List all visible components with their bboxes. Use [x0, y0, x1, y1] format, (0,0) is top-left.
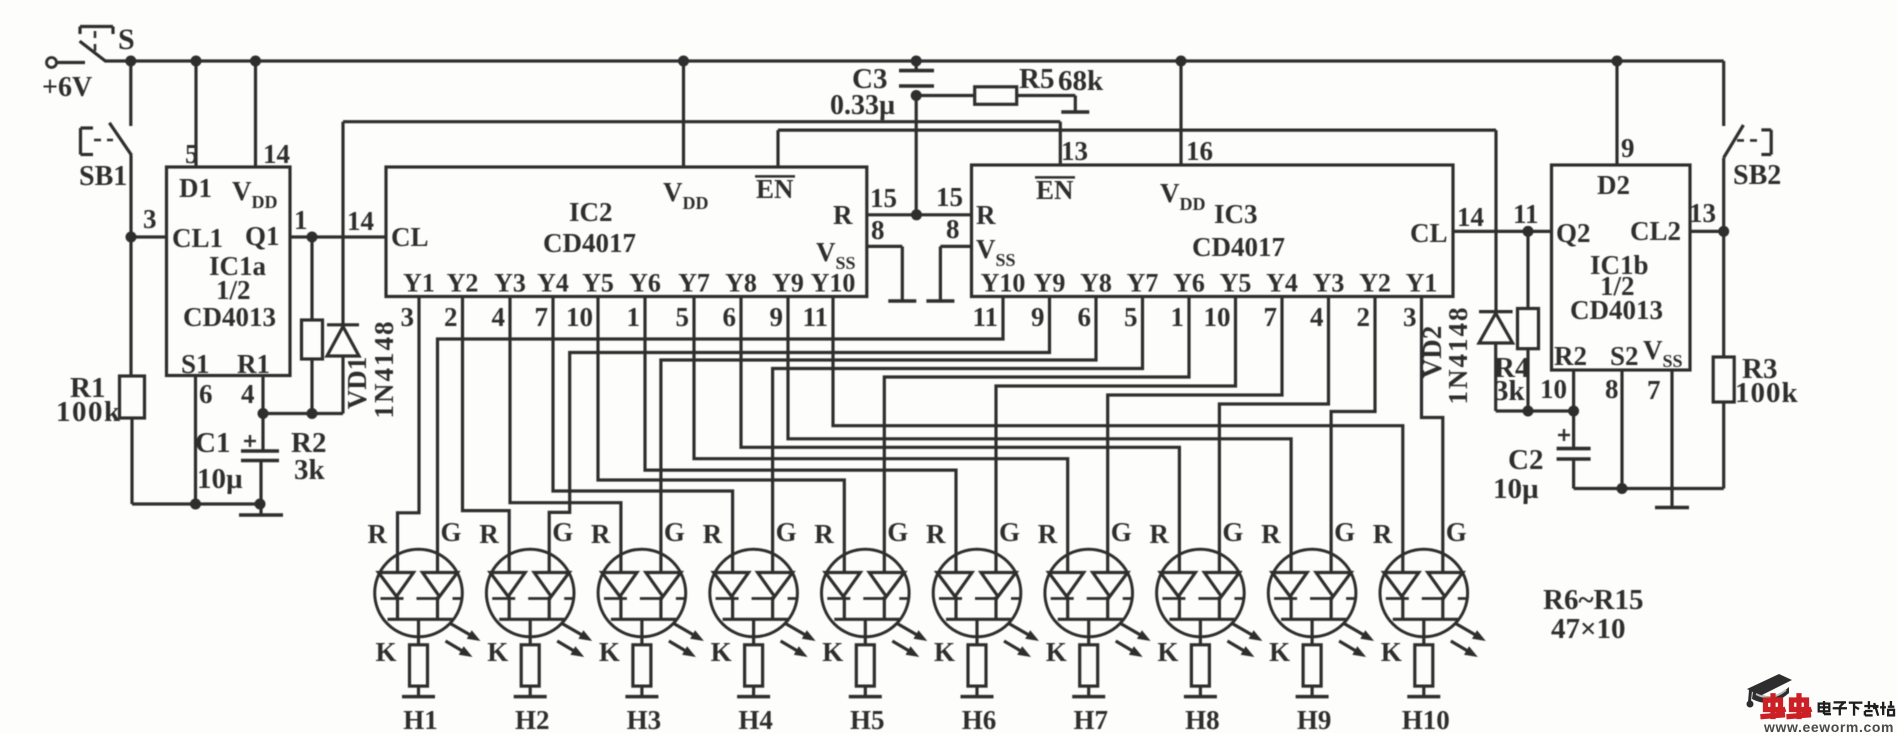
svg-text:R: R: [703, 519, 723, 549]
svg-text:Y7: Y7: [678, 269, 710, 298]
svg-text:VD1: VD1: [342, 357, 372, 410]
svg-text:3: 3: [401, 302, 415, 332]
svg-text:SB1: SB1: [79, 161, 127, 192]
svg-text:Y6: Y6: [1173, 269, 1205, 298]
svg-text:4: 4: [492, 302, 506, 332]
svg-text:13: 13: [1689, 198, 1716, 228]
svg-text:1: 1: [1171, 302, 1185, 332]
svg-text:Y1: Y1: [403, 269, 435, 298]
svg-text:R: R: [591, 519, 611, 549]
svg-text:CD4013: CD4013: [1570, 295, 1663, 325]
svg-text:1: 1: [627, 302, 641, 332]
svg-text:9: 9: [1621, 133, 1635, 163]
svg-text:2: 2: [444, 302, 458, 332]
svg-text:8: 8: [946, 214, 960, 244]
svg-text:Y10: Y10: [981, 269, 1026, 298]
svg-text:R: R: [976, 200, 996, 230]
svg-text:H2: H2: [515, 705, 550, 733]
svg-text:15: 15: [936, 182, 963, 212]
svg-text:CL2: CL2: [1630, 216, 1681, 246]
svg-text:100k: 100k: [56, 396, 122, 428]
svg-text:G: G: [441, 517, 462, 547]
svg-text:Y5: Y5: [1220, 269, 1252, 298]
svg-text:IC2: IC2: [569, 197, 613, 227]
svg-text:3k: 3k: [1494, 375, 1526, 407]
svg-text:68k: 68k: [1058, 65, 1104, 97]
svg-text:Y1: Y1: [1406, 269, 1438, 298]
svg-text:R: R: [479, 519, 499, 549]
svg-text:Y7: Y7: [1127, 269, 1159, 298]
svg-text:R: R: [833, 200, 853, 230]
svg-text:14: 14: [1457, 202, 1484, 232]
svg-text:C1: C1: [195, 427, 230, 459]
svg-text:+6V: +6V: [42, 72, 92, 103]
svg-text:6: 6: [723, 302, 737, 332]
svg-text:11: 11: [802, 302, 828, 332]
svg-text:0.33µ: 0.33µ: [830, 90, 895, 121]
svg-text:R: R: [1261, 519, 1281, 549]
svg-text:Y2: Y2: [447, 269, 479, 298]
svg-text:9: 9: [1031, 302, 1045, 332]
svg-text:1: 1: [294, 205, 308, 235]
svg-text:11: 11: [972, 302, 998, 332]
svg-text:G: G: [887, 517, 908, 547]
svg-text:EN: EN: [1036, 175, 1074, 205]
svg-text:IC3: IC3: [1214, 199, 1258, 229]
svg-text:R2: R2: [1554, 341, 1587, 371]
svg-text:7: 7: [1647, 375, 1661, 405]
svg-text:8: 8: [1605, 374, 1619, 404]
svg-text:K: K: [1381, 637, 1402, 667]
svg-text:R: R: [814, 519, 834, 549]
svg-text:3k: 3k: [294, 454, 326, 486]
svg-text:CL: CL: [391, 222, 429, 252]
svg-text:Y9: Y9: [772, 269, 804, 298]
svg-text:H5: H5: [850, 705, 885, 733]
svg-text:CL1: CL1: [172, 223, 223, 253]
svg-text:CD4013: CD4013: [183, 302, 276, 332]
svg-text:Y4: Y4: [1266, 269, 1298, 298]
svg-text:13: 13: [1061, 136, 1088, 166]
svg-text:5: 5: [676, 302, 690, 332]
svg-text:1/2: 1/2: [216, 275, 251, 305]
svg-text:4: 4: [241, 379, 255, 409]
svg-text:H6: H6: [962, 705, 997, 733]
svg-text:K: K: [1046, 637, 1067, 667]
svg-text:1N4148: 1N4148: [1443, 306, 1473, 405]
svg-text:Y9: Y9: [1034, 269, 1066, 298]
svg-text:R6~R15: R6~R15: [1543, 584, 1643, 616]
svg-text:7: 7: [535, 302, 549, 332]
svg-text:Y2: Y2: [1359, 269, 1391, 298]
svg-text:100k: 100k: [1735, 377, 1799, 409]
svg-text:K: K: [711, 637, 732, 667]
svg-text:6: 6: [199, 379, 213, 409]
svg-text:G: G: [776, 517, 797, 547]
svg-text:10: 10: [1204, 302, 1231, 332]
svg-text:R: R: [1373, 519, 1393, 549]
svg-text:Y5: Y5: [582, 269, 614, 298]
svg-text:14: 14: [347, 206, 374, 236]
svg-text:C2: C2: [1508, 444, 1543, 476]
svg-text:Y8: Y8: [1080, 269, 1112, 298]
svg-text:H1: H1: [403, 705, 438, 733]
svg-text:2: 2: [1357, 302, 1371, 332]
svg-text:K: K: [1157, 637, 1178, 667]
svg-text:Y8: Y8: [725, 269, 757, 298]
svg-text:H4: H4: [738, 705, 773, 733]
svg-text:SB2: SB2: [1733, 160, 1781, 191]
svg-text:D1: D1: [179, 173, 212, 203]
svg-text:1N4148: 1N4148: [369, 320, 399, 419]
svg-text:Q1: Q1: [245, 221, 280, 251]
svg-text:R: R: [926, 519, 946, 549]
svg-text:14: 14: [263, 139, 290, 169]
svg-text:5: 5: [185, 139, 199, 169]
svg-text:K: K: [487, 637, 508, 667]
svg-text:4: 4: [1310, 302, 1324, 332]
svg-text:Q2: Q2: [1556, 218, 1591, 248]
svg-text:G: G: [664, 517, 685, 547]
svg-text:10: 10: [566, 302, 593, 332]
svg-text:9: 9: [770, 302, 784, 332]
svg-text:S: S: [118, 23, 135, 56]
svg-text:7: 7: [1264, 302, 1278, 332]
svg-text:S2: S2: [1610, 341, 1639, 371]
svg-text:6: 6: [1078, 302, 1092, 332]
svg-text:Y3: Y3: [494, 269, 526, 298]
svg-text:EN: EN: [756, 174, 794, 204]
svg-text:K: K: [1269, 637, 1290, 667]
svg-text:R: R: [1038, 519, 1058, 549]
svg-text:R: R: [1149, 519, 1169, 549]
svg-text:11: 11: [1513, 199, 1539, 229]
svg-text:R: R: [368, 519, 388, 549]
svg-text:Y3: Y3: [1313, 269, 1345, 298]
svg-text:www.eeworm.com: www.eeworm.com: [1763, 719, 1894, 733]
svg-text:CD4017: CD4017: [1192, 232, 1285, 262]
svg-text:G: G: [1446, 517, 1467, 547]
svg-text:G: G: [1334, 517, 1355, 547]
svg-text:G: G: [1222, 517, 1243, 547]
svg-text:H9: H9: [1297, 705, 1332, 733]
svg-text:K: K: [934, 637, 955, 667]
svg-text:H10: H10: [1402, 705, 1450, 733]
svg-text:16: 16: [1186, 136, 1213, 166]
svg-text:R1: R1: [237, 349, 270, 379]
svg-text:Y4: Y4: [537, 269, 569, 298]
svg-text:K: K: [822, 637, 843, 667]
svg-text:Y10: Y10: [811, 269, 856, 298]
svg-text:3: 3: [1403, 302, 1417, 332]
svg-text:10: 10: [1540, 374, 1567, 404]
svg-text:G: G: [1111, 517, 1132, 547]
svg-text:10µ: 10µ: [197, 463, 243, 495]
svg-text:H3: H3: [627, 705, 662, 733]
svg-text:15: 15: [870, 183, 897, 213]
svg-text:G: G: [999, 517, 1020, 547]
svg-text:Y6: Y6: [629, 269, 661, 298]
svg-text:G: G: [552, 517, 573, 547]
svg-text:8: 8: [871, 215, 885, 245]
svg-text:47×10: 47×10: [1551, 613, 1626, 645]
svg-text:R5: R5: [1019, 63, 1054, 95]
svg-text:S1: S1: [181, 349, 210, 379]
svg-text:D2: D2: [1597, 170, 1630, 200]
svg-text:K: K: [376, 637, 397, 667]
svg-text:3: 3: [143, 204, 157, 234]
svg-text:10µ: 10µ: [1493, 473, 1539, 505]
svg-text:CD4017: CD4017: [543, 228, 636, 258]
svg-text:K: K: [599, 637, 620, 667]
svg-text:CL: CL: [1410, 218, 1448, 248]
svg-text:H7: H7: [1073, 705, 1108, 733]
svg-text:5: 5: [1124, 302, 1138, 332]
svg-text:H8: H8: [1185, 705, 1220, 733]
